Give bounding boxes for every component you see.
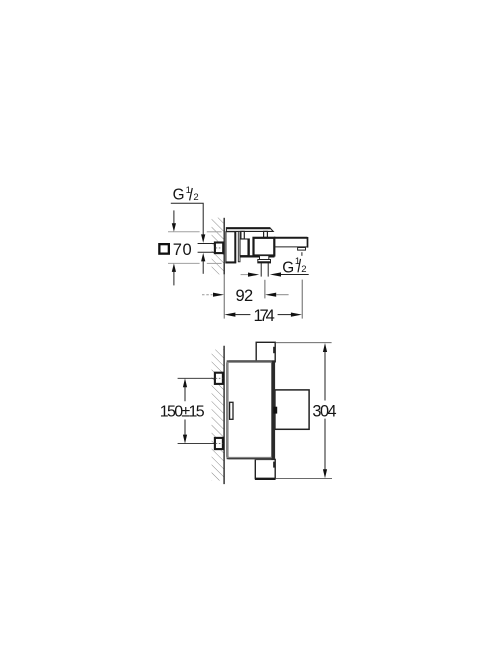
svg-text:150±15: 150±15 <box>160 403 205 420</box>
svg-text:70: 70 <box>173 241 192 259</box>
svg-text:304: 304 <box>312 403 336 421</box>
svg-text:2: 2 <box>301 264 306 275</box>
svg-text:2: 2 <box>193 192 198 203</box>
svg-text:92: 92 <box>236 287 254 305</box>
svg-text:G: G <box>173 187 185 204</box>
svg-text:1: 1 <box>186 185 191 196</box>
svg-text:174: 174 <box>254 307 275 325</box>
svg-text:G: G <box>282 259 294 276</box>
